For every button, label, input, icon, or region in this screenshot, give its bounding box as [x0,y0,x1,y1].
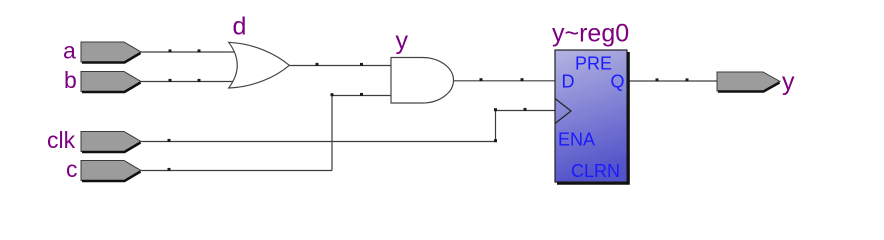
svg-text:d: d [233,13,247,41]
svg-text:ENA: ENA [558,130,595,150]
svg-text:a: a [63,38,76,64]
svg-text:y~reg0: y~reg0 [552,20,629,48]
svg-text:D: D [562,72,575,92]
svg-text:b: b [64,67,77,93]
svg-text:c: c [66,156,78,182]
svg-text:Q: Q [611,72,625,92]
svg-text:CLRN: CLRN [571,161,620,181]
svg-text:y: y [782,68,795,96]
svg-text:y: y [396,27,409,55]
svg-text:clk: clk [47,127,76,153]
svg-text:PRE: PRE [575,54,612,74]
